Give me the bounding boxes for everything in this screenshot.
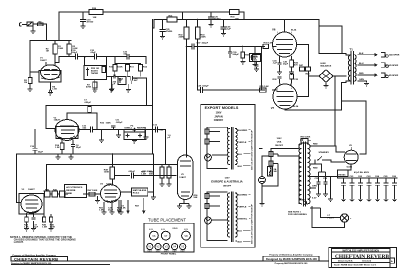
export1 switch stack: [205, 127, 213, 151]
export bus text column: [251, 130, 254, 244]
svg-text:100K: 100K: [58, 48, 64, 50]
wire sub-rail drop x153: [153, 20, 154, 29]
right title rows: [334, 261, 377, 267]
resistor R41: [52, 191, 60, 197]
wire B+ drop to V1: [58, 12, 60, 41]
svg-text:SEE COLOR CODE CHART FOR HOOKU: SEE COLOR CODE CHART FOR HOOKUP: [251, 130, 254, 170]
svg-text:Designed by MARK SAMPSON BCS-1: Designed by MARK SAMPSON BCS-100: [266, 257, 317, 261]
svg-text:TUBE PLACEMENT: TUBE PLACEMENT: [148, 217, 186, 222]
notes text: [10, 236, 76, 244]
transformer T1 core: [351, 52, 353, 85]
mix box: [131, 188, 147, 196]
svg-text:GRN: GRN: [359, 79, 364, 81]
grounds (V4 cathode): [102, 200, 124, 214]
node A: [84, 56, 86, 58]
wire standby to export: [260, 148, 263, 150]
wire V1 grid drop: [30, 41, 38, 73]
svg-text:SPARE: SPARE: [172, 227, 178, 230]
svg-text:Drawn by M.S.: Drawn by M.S.: [338, 261, 353, 263]
svg-text:.022μF: .022μF: [128, 171, 136, 173]
resistor R48 (V4 plate): [110, 153, 115, 185]
grounds (V2 cathode): [56, 154, 74, 159]
fuse box F1: [268, 167, 277, 177]
capacitor C37: [192, 44, 194, 49]
svg-text:.02μF: .02μF: [72, 52, 78, 54]
V7 cathode parts: [277, 74, 293, 84]
svg-text:3: 3: [277, 32, 278, 34]
standby caps: [315, 164, 328, 196]
resistor R2 leg: [28, 71, 32, 89]
arrow tap 8: [372, 64, 377, 66]
svg-text:R60 220K: R60 220K: [301, 137, 311, 139]
svg-text:GRN/YEL: GRN/YEL: [238, 218, 248, 220]
preset arrows above tube box: [118, 198, 145, 213]
svg-text:PURPLE: PURPLE: [238, 142, 247, 144]
transformer T1 secondary: [355, 55, 356, 81]
tube placement labels top: [149, 227, 188, 231]
resistor R38 on rail: [89, 8, 103, 19]
export1 fuse circle: [205, 154, 212, 161]
svg-text:PILOT: PILOT: [328, 218, 335, 220]
svg-text:.02μF: .02μF: [90, 52, 96, 54]
svg-text:EL34: EL34: [293, 105, 299, 108]
capacitor C38: [200, 88, 202, 93]
jack 8 ohm: [381, 63, 399, 68]
wire V7 plate to T1: [285, 82, 346, 110]
svg-text:Checked: Checked: [362, 261, 372, 263]
ground (line stub left): [99, 130, 104, 143]
svg-text:8Ω SPKR: 8Ω SPKR: [389, 65, 399, 67]
tone stack feed cap C33: [112, 54, 129, 59]
svg-text:1M: 1M: [46, 51, 49, 53]
export2 tap labels: [235, 193, 250, 243]
export2 transformer winding L: [228, 193, 230, 237]
svg-text:.022μF: .022μF: [116, 122, 124, 124]
svg-text:R34 5.6K: R34 5.6K: [264, 41, 274, 44]
wire tone feed right: [129, 57, 146, 64]
V7 pin stubs: [280, 84, 291, 86]
svg-text:6.3V: 6.3V: [312, 198, 317, 200]
svg-text:BIAS: BIAS: [253, 56, 258, 59]
capacitor C30: [76, 54, 85, 59]
svg-text:170VAC: 170VAC: [338, 174, 347, 177]
svg-text:BLU: BLU: [238, 230, 243, 232]
wire V8 HT2: [334, 76, 336, 146]
svg-text:RCA 2: RCA 2: [133, 192, 140, 195]
ground (line stub mid): [116, 129, 121, 138]
svg-text:220K: 220K: [179, 37, 185, 39]
svg-text:.022μF: .022μF: [84, 102, 92, 104]
svg-text:MATCHLESS: MATCHLESS: [133, 189, 147, 192]
pilot lamp: [340, 214, 352, 222]
svg-text:BLU: BLU: [238, 154, 243, 156]
resistor R7: [86, 82, 97, 89]
export1 tap labels: [235, 129, 250, 168]
wire V2 grid left: [46, 106, 55, 129]
tube placement labels bottom: [147, 250, 185, 253]
left title drawing line: [11, 262, 110, 265]
resistor R42: [60, 191, 66, 197]
V2 socket box: [56, 127, 78, 139]
transformer T2 winding L: [297, 144, 301, 204]
svg-text:4: 4: [291, 32, 292, 34]
V2 cathode cap C6: [71, 140, 75, 154]
capacitor C31: [107, 75, 118, 79]
export2 wires left: [207, 192, 228, 241]
labels cap bank: [350, 171, 397, 178]
ground (C31 leg): [109, 76, 114, 92]
svg-text:BLK: BLK: [238, 166, 243, 168]
svg-text:56K: 56K: [194, 197, 198, 199]
svg-text:220K: 220K: [201, 37, 207, 39]
svg-text:R35 5.6K: R35 5.6K: [260, 86, 270, 88]
right title divider: [332, 248, 391, 267]
export1 wires left: [207, 127, 228, 168]
svg-text:EL34: EL34: [149, 229, 153, 231]
wire 170VAC: [310, 171, 348, 199]
ground (T1 secondary): [364, 84, 369, 86]
resistor R34 (V6 grid): [263, 41, 273, 48]
svg-text:V8: V8: [184, 234, 188, 238]
svg-text:56K: 56K: [149, 174, 153, 176]
jack 4 ohm: [381, 73, 399, 78]
svg-text:1.5K: 1.5K: [52, 89, 57, 91]
V1 cathode lead: [49, 82, 51, 92]
master vol cap C39: [228, 46, 232, 58]
svg-text:BALANCE: BALANCE: [321, 64, 332, 67]
svg-text:Property MATCHLESS BCS-100: Property MATCHLESS BCS-100: [275, 262, 308, 265]
svg-text:47μF EA. 450V: 47μF EA. 450V: [354, 171, 370, 174]
tube placement circle V7: [161, 231, 170, 240]
wire V2 plate up: [66, 113, 68, 120]
wire node to C32: [85, 56, 94, 58]
left title property line: [11, 254, 67, 257]
svg-text:SEE COLOR CODE CHART FOR HOOKU: SEE COLOR CODE CHART FOR HOOKUP: [251, 204, 254, 244]
wire V5 grid drop: [165, 130, 167, 165]
tube V4 12AX7: [101, 185, 121, 203]
wire HT from rectifier: [342, 101, 367, 154]
tube placement box: [144, 223, 194, 252]
svg-text:25μF: 25μF: [76, 147, 82, 149]
svg-text:ON/OFF: ON/OFF: [275, 145, 284, 147]
svg-text:ACCUTRONICS: ACCUTRONICS: [66, 186, 83, 189]
svg-text:ADJ: ADJ: [253, 58, 257, 61]
V1 socket box: [39, 71, 61, 83]
svg-text:DWELL: DWELL: [125, 128, 133, 130]
svg-text:LAYOUT.: LAYOUT.: [14, 241, 24, 244]
svg-text:68K: 68K: [39, 24, 43, 26]
svg-text:100K: 100K: [117, 67, 123, 69]
pot PR2 volume: [84, 57, 107, 80]
wire PI feed vertical: [152, 20, 154, 155]
resistor R9 on wire: [38, 23, 44, 26]
svg-text:25μF: 25μF: [283, 64, 289, 66]
tube V3 12AX7: [21, 195, 42, 213]
svg-text:ON/OFF: ON/OFF: [223, 186, 232, 188]
V2 cathode resistor R14: [60, 140, 64, 154]
svg-text:GND: GND: [300, 200, 305, 202]
V5 left resistors: [160, 165, 171, 185]
grounds (V5 left): [160, 184, 172, 186]
tube placement circle V5: [180, 244, 186, 250]
left title box: [11, 256, 67, 261]
svg-text:V6: V6: [152, 234, 156, 238]
svg-text:.1μF: .1μF: [273, 63, 278, 65]
filter cap bank C60-C66: [341, 178, 397, 202]
grounds (V3 bottom): [24, 221, 54, 231]
wire cap rail: [338, 164, 398, 178]
svg-text:Scale: NONE Date 10-8-1997 S: Scale: NONE Date 10-8-1997 Sheet 1 of 1: [334, 264, 377, 267]
export2 fuse circle: [205, 217, 212, 224]
svg-text:V7: V7: [271, 106, 275, 110]
wire reverb send bus: [16, 153, 152, 155]
transformer T2 core: [303, 142, 305, 206]
svg-text:BLK: BLK: [359, 53, 364, 55]
center bottom designed box: [263, 256, 319, 261]
wire x97 drop: [96, 113, 98, 130]
tube V6 EL34: [272, 27, 297, 57]
svg-text:GRN: GRN: [312, 186, 317, 188]
tone stack top wire: [115, 57, 146, 64]
wire V2 B+ top: [46, 105, 153, 107]
resistor R15 plate: [88, 105, 92, 113]
ground (V1 cathode): [48, 93, 53, 95]
V6 cathode resistor stack: [289, 58, 294, 74]
svg-text:GZ34: GZ34: [184, 229, 188, 231]
svg-text:12AX7: 12AX7: [40, 59, 47, 62]
resistor R32 (PI plate): [184, 19, 189, 157]
reverb tank box: [65, 185, 87, 198]
tube V1 12AX7: [41, 62, 61, 80]
svg-text:BLU: BLU: [359, 63, 364, 65]
ground circle (CT): [300, 200, 307, 205]
wire PI out 2 to V7 grid: [198, 89, 265, 91]
wire V4 to mix box: [121, 191, 154, 193]
wire rail drop x182: [182, 12, 184, 20]
mains switch stack: [269, 150, 278, 176]
resistor R40: [45, 191, 53, 197]
svg-text:1.5M: 1.5M: [141, 174, 146, 176]
tube V5 12AX7 (PI): [178, 155, 194, 200]
svg-text:PURPLE: PURPLE: [238, 206, 247, 208]
svg-text:ON/OFF: ON/OFF: [214, 119, 224, 122]
wire V2 plate line: [67, 112, 97, 114]
svg-text:1.5K: 1.5K: [55, 147, 60, 149]
right title rev box: [390, 258, 395, 263]
transformer T2 winding R: [308, 144, 310, 204]
wire diamond to T1 CT: [333, 75, 346, 77]
tube placement circle V2: [155, 244, 161, 250]
V5 bottom wires: [177, 200, 192, 209]
ground (mains): [260, 204, 265, 206]
arrow tap 4: [372, 74, 377, 76]
svg-text:12AX7: 12AX7: [179, 176, 186, 179]
svg-text:12AX7: 12AX7: [54, 119, 61, 122]
ground (PR5 center): [132, 140, 137, 143]
capacitor C35: [160, 19, 165, 37]
ground (PR3): [253, 62, 258, 67]
tube V8 GZ34: [344, 147, 358, 164]
wire jack to grid node: [35, 24, 47, 40]
svg-text:TAPER: TAPER: [91, 72, 99, 75]
svg-text:REVERB: REVERB: [66, 190, 76, 192]
wire HT secondary to V8: [310, 146, 345, 164]
resistor R30 on rail: [230, 10, 240, 21]
pot PR4 cut: [115, 76, 126, 84]
capacitor C11 stub: [111, 125, 115, 130]
wire secondary common: [358, 81, 367, 83]
svg-text:30pF: 30pF: [38, 152, 44, 154]
wire x46 drop: [44, 165, 47, 192]
capacitor C32: [95, 54, 113, 59]
capacitor C34: [127, 76, 132, 84]
svg-text:4Ω SPKR: 4Ω SPKR: [389, 74, 399, 77]
resistor R35 (V7 grid): [260, 86, 270, 92]
tube V2 12AX7: [55, 116, 79, 140]
input jack J1: [19, 22, 34, 26]
svg-text:EXPORT MODELS: EXPORT MODELS: [205, 106, 239, 110]
wire tank to V4: [87, 193, 101, 195]
arrow tap 16: [372, 54, 377, 56]
svg-text:FOR GROUNDING: FOR GROUNDING: [288, 214, 307, 216]
tube placement circle V4: [172, 244, 178, 250]
svg-text:1M: 1M: [24, 82, 27, 84]
wire PI out 1 to V6 grid: [187, 45, 265, 47]
export1 transformer winding L: [228, 129, 230, 165]
svg-text:MATCHLESS AMPLIFIER DESIGN: MATCHLESS AMPLIFIER DESIGN: [342, 249, 379, 252]
V6 cathode cap stack: [277, 58, 282, 74]
pot PR5 reverb: [124, 128, 147, 140]
bottom border line: [11, 260, 329, 262]
wire secondary tap 4: [358, 74, 372, 76]
svg-text:100K: 100K: [104, 172, 110, 174]
svg-text:SB: SB: [274, 171, 277, 173]
resistor R11: [125, 64, 129, 77]
svg-text:1.5K: 1.5K: [121, 208, 126, 210]
pot stub below tank wire: [95, 196, 100, 203]
wire x153 tail: [152, 154, 155, 197]
jack 16 ohm: [381, 53, 400, 58]
svg-text:C37 .022μF: C37 .022μF: [197, 43, 209, 45]
pot PR3 master: [250, 46, 261, 62]
capacitor C12 on line: [155, 127, 157, 132]
svg-text:3: 3: [277, 88, 278, 90]
svg-text:100V: 100V: [216, 112, 222, 115]
wire tone out down: [133, 78, 146, 106]
ground (x153 tail): [151, 197, 156, 199]
svg-text:47/450: 47/450: [166, 30, 173, 33]
wire C32 tee down: [106, 57, 108, 66]
svg-text:25μF: 25μF: [108, 210, 114, 212]
tube placement circle V3: [163, 244, 169, 250]
bias adjust box: [253, 55, 262, 72]
svg-text:10K: 10K: [93, 17, 97, 19]
svg-text:STANDBY: STANDBY: [319, 151, 330, 154]
ground (input jack): [31, 26, 36, 33]
svg-text:12AX7: 12AX7: [28, 188, 35, 191]
ground (PR5 right): [143, 130, 148, 140]
svg-text:EUROPE & AUSTRALIA: EUROPE & AUSTRALIA: [211, 180, 242, 184]
ground (C35): [160, 37, 165, 39]
svg-text:V6: V6: [272, 28, 276, 32]
ground (C20): [209, 25, 214, 27]
capacitor C20 (rail filter): [209, 11, 214, 24]
screen resistor R48: [306, 67, 311, 76]
resistor R10: [113, 64, 117, 77]
resistor R47 on wire: [88, 189, 98, 196]
wire reverb line y129.5: [79, 129, 166, 131]
wire B+ to T1: [319, 20, 346, 54]
svg-text:1.5M: 1.5M: [42, 227, 47, 229]
wire B+ top rail: [59, 12, 244, 20]
export2 transformer core: [232, 192, 233, 242]
wire V1 plate signal: [55, 57, 75, 63]
tube placement circle V8: [182, 231, 191, 240]
heater wires to pilot: [310, 188, 340, 218]
capacitor C36: [221, 19, 226, 34]
svg-text:.1μF: .1μF: [226, 29, 231, 31]
right title banner: [332, 248, 391, 252]
wire V4 out y175: [115, 173, 176, 178]
wire V6 plate: [284, 20, 286, 28]
svg-text:C38 .022μF: C38 .022μF: [197, 85, 209, 87]
tube V7 EL34: [272, 84, 297, 110]
export2 switch stack: [205, 192, 213, 215]
svg-text:500pF: 500pF: [233, 54, 240, 56]
svg-text:4: 4: [291, 88, 292, 90]
svg-text:REVERB: REVERB: [137, 128, 147, 130]
wire bias tie: [260, 46, 262, 90]
svg-text:47/100: 47/100: [87, 21, 94, 24]
resistor R12: [138, 64, 142, 77]
ground (tone left): [110, 84, 115, 91]
mains wires: [262, 149, 297, 204]
resistor R31 on sub-rail: [167, 15, 177, 22]
tube placement circle V6: [150, 231, 159, 240]
svg-text:JAPAN: JAPAN: [214, 115, 222, 118]
ground (PR2): [92, 79, 97, 92]
bias network cluster: [300, 137, 311, 144]
svg-text:BLK: BLK: [238, 241, 243, 243]
ground (diamond): [324, 82, 329, 88]
wire screen sub-rail: [154, 19, 319, 21]
svg-text:RED: RED: [313, 168, 318, 170]
mains plug circle: [259, 177, 266, 184]
wire V7 screen: [297, 71, 309, 97]
standby switch: [317, 157, 327, 161]
wire secondary tap 8: [358, 64, 372, 66]
ground (R2 leg): [28, 89, 33, 91]
svg-text:RED: RED: [359, 73, 364, 75]
svg-text:T1: T1: [350, 48, 354, 52]
export1 transformer winding R: [235, 129, 237, 165]
svg-text:BLK/RED: BLK/RED: [238, 194, 248, 196]
transformer T1 primary: [346, 53, 350, 82]
ground (PT CT): [328, 199, 333, 201]
svg-text:1.5K: 1.5K: [99, 210, 104, 212]
export2 transformer winding R: [235, 193, 237, 237]
export1 transformer core: [232, 128, 233, 170]
svg-text:EL34: EL34: [161, 229, 165, 231]
wire pilot return: [312, 206, 345, 228]
tube placement circle V1: [147, 244, 153, 250]
screen resistor R47: [299, 64, 305, 71]
wire to V3 grid: [16, 154, 21, 202]
ground (C19): [81, 26, 86, 28]
V3 bottom parts: [25, 213, 53, 222]
hum balance diamond PR5: [319, 70, 333, 82]
svg-text:470K: 470K: [86, 86, 92, 89]
